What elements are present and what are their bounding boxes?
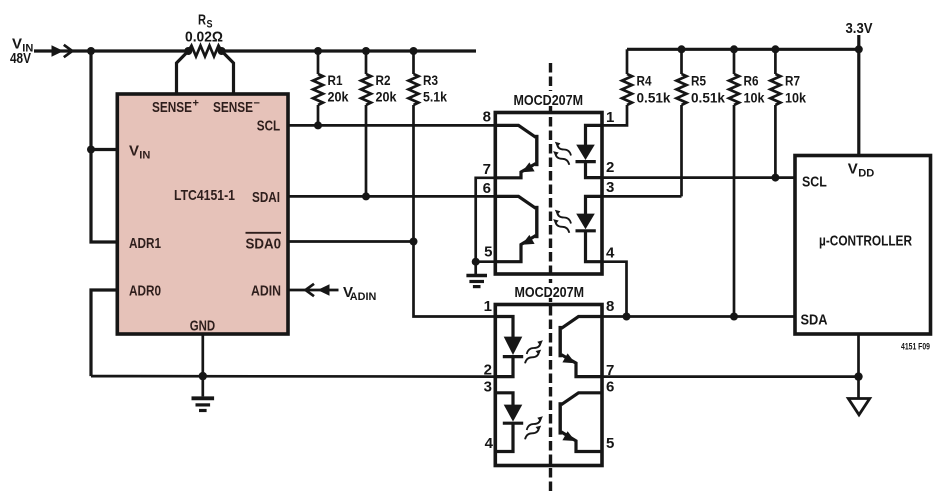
svg-text:SDAI: SDAI <box>252 189 280 206</box>
svg-text:R: R <box>198 11 206 28</box>
svg-text:4: 4 <box>606 245 615 262</box>
svg-text:2: 2 <box>606 159 614 176</box>
node junction dot pin4 SDA <box>623 313 631 321</box>
light arrows opto2 <box>527 340 543 354</box>
wire opto1 pin 4 down to SDA <box>602 262 627 317</box>
wire opto2 pin 7 to uC ground <box>602 375 859 378</box>
resistor R5 0.51k <box>680 49 683 74</box>
wire opto1 pin 3 to R5 <box>602 195 682 198</box>
svg-text:SDA0: SDA0 <box>246 235 282 252</box>
node junction dot R1 bottom SCL <box>314 121 322 129</box>
wire ADR0 to bottom line <box>91 290 117 376</box>
svg-text:1: 1 <box>484 298 492 315</box>
svg-text:ADIN: ADIN <box>350 291 377 303</box>
svg-text:µ-CONTROLLER: µ-CONTROLLER <box>819 233 912 250</box>
svg-text:R5: R5 <box>691 73 706 89</box>
svg-text:8: 8 <box>606 298 614 315</box>
svg-text:8: 8 <box>483 109 491 126</box>
svg-text:DD: DD <box>858 167 874 179</box>
wire SDA line opto2 pin 8 to uC <box>602 315 795 318</box>
resistor RS 0.02ohm <box>188 46 221 57</box>
svg-text:R2: R2 <box>376 72 391 88</box>
svg-text:R3: R3 <box>423 72 438 88</box>
wire 48V rail to R3 end <box>222 49 476 52</box>
svg-text:7: 7 <box>483 161 491 178</box>
svg-text:SENSE: SENSE <box>152 99 192 116</box>
node junction dot R6 top <box>730 45 738 53</box>
wire ground line ADR0/GND to bottom opto pin 2 <box>91 375 495 378</box>
wire left vertical to VIN/ADR1 <box>91 51 117 242</box>
svg-text:LTC4151-1: LTC4151-1 <box>174 187 235 204</box>
node junction dot R3 top <box>410 47 418 55</box>
node junction dot VIN <box>87 146 95 154</box>
isolation dashed line <box>549 63 552 492</box>
svg-text:ADR1: ADR1 <box>129 235 161 252</box>
led D2 opto1 lower <box>576 196 603 261</box>
transistor Q4 opto2 lower <box>560 393 602 452</box>
svg-text:+: + <box>193 98 199 110</box>
svg-text:SCL: SCL <box>802 174 827 191</box>
wire VIN input rail <box>34 49 188 52</box>
wire VIN pin stub <box>91 148 117 151</box>
wire ADIN stub with VADIN arrow <box>288 289 339 292</box>
wire opto1 pin 5 stub <box>476 260 496 263</box>
transistor Q1 opto1 upper <box>495 125 537 177</box>
wire SENSE- lead <box>222 51 234 94</box>
svg-text:5: 5 <box>606 435 614 452</box>
svg-text:3: 3 <box>484 378 492 395</box>
resistor R3 5.1k <box>412 51 415 74</box>
resistor R6 10k <box>733 49 736 74</box>
svg-text:0.51k: 0.51k <box>637 90 671 106</box>
svg-text:6: 6 <box>483 180 491 197</box>
svg-text:MOCD207M: MOCD207M <box>515 284 585 301</box>
svg-text:48V: 48V <box>10 50 31 67</box>
wire opto1 pin 2 to uC SCL <box>602 176 795 179</box>
svg-text:V: V <box>129 142 139 159</box>
resistor R7 10k <box>774 49 777 74</box>
node junction dot R1 top <box>314 47 322 55</box>
resistor R1 20k <box>317 51 320 74</box>
svg-text:R6: R6 <box>744 73 759 89</box>
node VIN input arrow <box>52 45 64 57</box>
light arrows opto1 <box>555 142 571 156</box>
node junction dot R6 bottom SDA <box>730 313 738 321</box>
svg-text:V: V <box>848 160 858 177</box>
svg-text:R7: R7 <box>785 73 800 89</box>
node junction dot R7 bottom SCL <box>771 174 779 182</box>
svg-text:R4: R4 <box>637 73 652 89</box>
node junction dot R2 top <box>362 47 370 55</box>
ground triangle uC side <box>848 399 869 415</box>
transistor Q2 opto1 lower <box>495 196 537 261</box>
led D3 opto2 upper <box>495 317 523 377</box>
wire LTC GND stub <box>201 334 204 396</box>
wire SCL line LTC to opto pin 8 <box>288 124 495 127</box>
svg-text:MOCD207M: MOCD207M <box>514 92 584 109</box>
resistor R2 20k <box>365 51 368 74</box>
wire SDA0 line LTC to R3 <box>288 240 414 243</box>
wire SDA0 down to bottom opto pin 1 <box>414 242 496 317</box>
svg-text:ADR0: ADR0 <box>129 282 161 299</box>
ic LTC4151-1 <box>117 94 288 334</box>
node junction dot RS right <box>218 47 226 55</box>
node junction dot pin5 tie <box>472 258 480 266</box>
svg-text:0.02Ω: 0.02Ω <box>185 28 223 45</box>
led D1 opto1 upper <box>576 125 603 177</box>
wire opto1 pins 7/5 tie to ground <box>476 178 496 274</box>
node junction dot R7 top <box>771 45 779 53</box>
wire 3.3V down to uC VDD <box>857 49 860 155</box>
svg-text:4151 F09: 4151 F09 <box>901 342 930 352</box>
transistor Q3 opto2 upper <box>560 317 602 377</box>
wire uC bottom ground stub <box>857 334 860 398</box>
optocoupler U2 MOCD207M bottom box <box>495 305 602 466</box>
svg-text:2: 2 <box>484 362 492 379</box>
wire 3.3V stub <box>857 35 860 49</box>
svg-text:ADIN: ADIN <box>251 282 281 299</box>
svg-text:3: 3 <box>606 179 614 196</box>
node junction dot uC ground <box>854 372 862 380</box>
svg-text:R1: R1 <box>328 72 343 88</box>
svg-text:5: 5 <box>484 244 492 261</box>
node junction dot main rail <box>87 47 95 55</box>
node junction dot R5 top <box>678 45 686 53</box>
node junction dot R2 bottom SDAI <box>362 192 370 200</box>
svg-text:20k: 20k <box>376 89 397 105</box>
ic U3 u-controller <box>795 156 931 335</box>
svg-text:3.3V: 3.3V <box>846 20 873 37</box>
node junction dot 3.3V <box>855 45 863 53</box>
led D4 opto2 lower <box>495 393 523 452</box>
ground opto side <box>466 276 487 287</box>
svg-text:SENSE: SENSE <box>213 99 253 116</box>
svg-text:−: − <box>254 98 260 110</box>
svg-text:SCL: SCL <box>257 118 280 135</box>
optocoupler U1 MOCD207M top box <box>495 113 602 275</box>
svg-text:GND: GND <box>190 317 216 334</box>
svg-text:6: 6 <box>606 378 614 395</box>
ground LTC side <box>192 398 215 410</box>
node junction dot RS left <box>184 47 192 55</box>
svg-text:4: 4 <box>485 435 494 452</box>
wire SDAI line LTC to opto pin 6 <box>288 195 495 198</box>
svg-text:0.51k: 0.51k <box>691 90 725 106</box>
svg-text:IN: IN <box>139 149 150 161</box>
wire 3.3V rail <box>627 48 859 51</box>
svg-text:10k: 10k <box>785 90 806 106</box>
svg-text:5.1k: 5.1k <box>423 89 447 105</box>
svg-text:10k: 10k <box>744 90 765 106</box>
node junction dot R3 bottom SDA0 <box>410 238 418 246</box>
node junction dot GND line <box>199 372 207 380</box>
svg-text:20k: 20k <box>328 89 349 105</box>
svg-text:1: 1 <box>606 109 614 126</box>
wire SENSE+ lead <box>177 51 189 94</box>
svg-text:SDA: SDA <box>801 312 828 329</box>
resistor R4 0.51k <box>626 49 629 74</box>
